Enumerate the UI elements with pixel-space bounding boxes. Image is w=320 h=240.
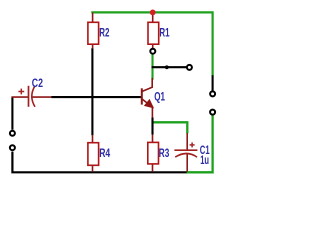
capacitor C2 plus sign xyxy=(18,89,24,95)
svg-text:Q1: Q1 xyxy=(154,90,165,103)
wire: right rail black segment above terminal xyxy=(212,75,214,90)
terminal: right rail lower xyxy=(210,110,215,115)
wire: left rail lower black segment and bottom ground rail xyxy=(12,152,186,173)
wire: R3 bottom lead xyxy=(152,164,154,172)
terminal: right rail upper xyxy=(210,91,215,96)
wire: R1 top lead xyxy=(152,13,154,22)
svg-text:R4: R4 xyxy=(99,147,110,160)
wire: lead from left rail to C2 (dark red) xyxy=(11,96,28,98)
terminal: left input upper xyxy=(10,131,15,136)
svg-text:1u: 1u xyxy=(200,154,209,167)
resistor R1 xyxy=(148,22,159,44)
capacitor C1 plus sign xyxy=(190,142,195,147)
svg-text:C2: C2 xyxy=(32,77,43,90)
terminal: left input lower xyxy=(10,145,15,150)
label C1 value 1u xyxy=(200,154,209,167)
label R2 xyxy=(99,27,109,40)
wire: mid row black wire from C2 to Q1 base xyxy=(51,96,141,98)
svg-text:R2: R2 xyxy=(99,27,109,40)
wire: right rail lower green segment down to bottom rail xyxy=(186,115,212,172)
capacitor C1 plates xyxy=(174,150,197,157)
wire: R1 bottom lead xyxy=(152,45,154,48)
terminal: collector node below R1 xyxy=(150,49,155,54)
resistor R4 xyxy=(88,143,99,166)
label R1 xyxy=(159,27,170,40)
wire: lead from C2 to base wire (dark red) xyxy=(32,96,52,98)
label R4 xyxy=(99,147,110,160)
transistor Q1 xyxy=(142,78,153,118)
wire: R2 bottom lead xyxy=(92,45,94,49)
wire: black branch from collector node to output terminal xyxy=(152,66,187,68)
junction dot on branch wire xyxy=(165,65,169,69)
wire: emitter branch green to C1 top xyxy=(153,122,187,133)
wire: collector green wire below R1 terminal xyxy=(151,54,153,80)
terminal: output right end of branch xyxy=(187,65,192,70)
resistor R3 xyxy=(148,142,159,164)
junction dot on supply rail at R1 xyxy=(150,10,156,16)
wire: top supply rail (green) from R2 top to right rail xyxy=(91,12,212,75)
svg-text:R1: R1 xyxy=(159,27,170,40)
label Q1 xyxy=(154,90,165,103)
label C1 xyxy=(200,144,210,157)
svg-text:R3: R3 xyxy=(159,147,170,160)
wire: C1 bottom lead xyxy=(186,154,188,172)
wire: R4 bottom lead xyxy=(92,166,94,172)
wire: left rail upper black segment xyxy=(11,97,13,130)
capacitor C2 plates xyxy=(29,86,36,107)
resistor R2 xyxy=(88,22,99,44)
wire: R3 top lead xyxy=(152,134,154,142)
label R3 xyxy=(159,147,170,160)
wire: C1 top lead xyxy=(186,133,188,150)
label C2 xyxy=(32,77,43,90)
wire: R4 top lead xyxy=(92,135,94,143)
wire: R2 top lead xyxy=(92,13,94,22)
wire: vertical black wire R2 to R4 crossing base wire xyxy=(91,48,93,135)
wire: emitter column black segment xyxy=(151,117,153,134)
